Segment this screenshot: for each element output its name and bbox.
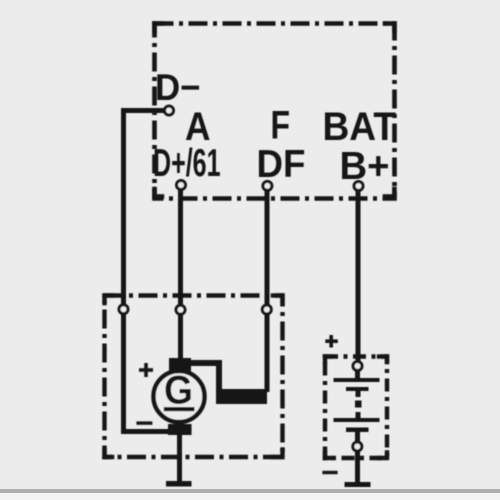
field winding L1 [216, 389, 267, 404]
wire DF to field winding [265, 186, 270, 392]
node generator terminal 2 [176, 305, 185, 314]
wire generator to ground [177, 430, 182, 483]
wire D- to generator minus brush [124, 111, 171, 432]
terminal D- circle [165, 106, 174, 115]
svg-text:B+: B+ [340, 145, 390, 188]
battery plus sign [325, 335, 338, 348]
battery minus sign [322, 471, 337, 474]
terminal D+/61 circle [177, 181, 186, 190]
battery box [323, 354, 389, 460]
wire B+ to battery [356, 186, 361, 368]
node generator terminal 3 [262, 305, 271, 314]
svg-text:G: G [164, 369, 193, 413]
svg-text:D+/61: D+/61 [153, 142, 221, 185]
generator G1 circle [154, 371, 205, 422]
node generator terminal 1 [119, 305, 128, 314]
scan edge band bottom [0, 489, 500, 500]
node battery minus terminal [353, 442, 362, 451]
svg-text:F: F [271, 104, 291, 148]
generator ground [166, 481, 192, 487]
terminal DF circle [263, 181, 272, 190]
svg-text:D−: D− [155, 67, 201, 108]
generator plus brush [169, 358, 191, 372]
wire brush to field winding [190, 363, 219, 391]
svg-text:BAT: BAT [323, 105, 397, 149]
svg-text:DF: DF [257, 143, 306, 186]
generator plus sign [139, 363, 153, 377]
wire D+/61 to generator plus brush [178, 185, 183, 365]
battery BT1 cells [334, 366, 380, 484]
node battery plus terminal [353, 362, 362, 371]
generator G underline [164, 407, 195, 411]
battery ground [345, 482, 371, 487]
generator minus brush [168, 424, 192, 435]
generator minus sign [136, 421, 152, 424]
terminal B+ circle [354, 182, 363, 191]
generator box [102, 293, 284, 459]
regulator box U1 [152, 21, 397, 199]
